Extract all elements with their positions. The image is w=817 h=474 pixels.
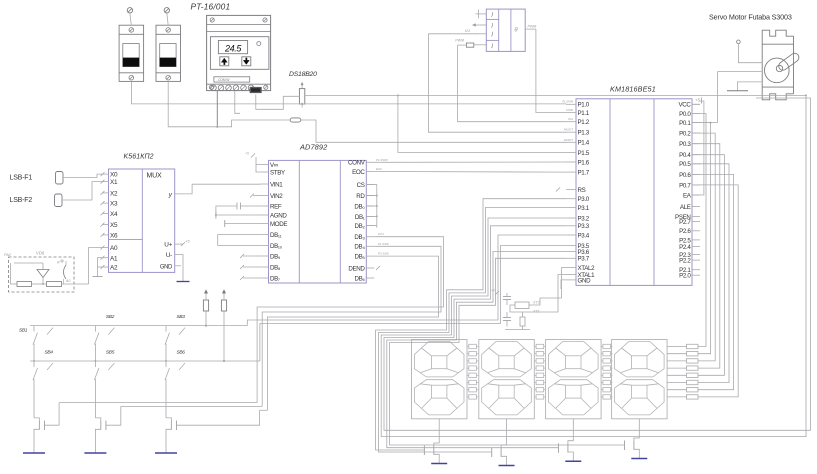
- svg-text:SB2: SB2: [106, 314, 115, 320]
- svg-text:X4: X4: [110, 211, 118, 218]
- svg-text:P0.2: P0.2: [679, 131, 691, 138]
- svg-text:EOC: EOC: [352, 169, 365, 176]
- svg-text:X6: X6: [110, 233, 118, 240]
- svg-text:GND: GND: [160, 264, 173, 270]
- svg-text:+5: +5: [245, 152, 249, 156]
- svg-text:K561КП2: K561КП2: [124, 154, 154, 161]
- svg-text:P1.4: P1.4: [578, 140, 590, 147]
- svg-text:P1.0: P1.0: [578, 102, 590, 109]
- svg-text:P3.3/DK: P3.3/DK: [378, 252, 390, 256]
- svg-text:STBY: STBY: [270, 169, 285, 176]
- svg-text:DB₅: DB₅: [354, 254, 365, 261]
- svg-text:P1.0/WR: P1.0/WR: [562, 100, 573, 104]
- svg-text:P0.3: P0.3: [679, 141, 691, 148]
- svg-text:Servo Motor Futaba S3003: Servo Motor Futaba S3003: [709, 13, 792, 22]
- svg-text:DB₉: DB₉: [270, 253, 281, 260]
- svg-text:P1.2: P1.2: [578, 119, 590, 126]
- svg-text:SB6: SB6: [177, 350, 186, 356]
- svg-text:CONV: CONV: [348, 160, 366, 167]
- svg-text:PA1: PA1: [568, 117, 573, 121]
- svg-text:P0.6: P0.6: [679, 172, 691, 179]
- svg-text:MODE: MODE: [270, 221, 287, 228]
- svg-text:P1.3: P1.3: [578, 130, 590, 137]
- svg-text:P0.7: P0.7: [679, 182, 691, 189]
- svg-text:KM1816BE51: KM1816BE51: [610, 85, 656, 94]
- svg-text:U-: U-: [166, 252, 172, 259]
- svg-text:P0.0: P0.0: [679, 111, 691, 118]
- svg-text:LSB-F1: LSB-F1: [10, 174, 33, 181]
- svg-text:PWM: PWM: [566, 108, 573, 112]
- svg-text:EA: EA: [683, 192, 692, 199]
- svg-text:V∞: V∞: [270, 162, 278, 169]
- svg-text:DEND: DEND: [348, 265, 365, 272]
- svg-text:t23: t23: [465, 29, 470, 33]
- svg-text:P2.6: P2.6: [679, 228, 691, 235]
- svg-text:P3.3: P3.3: [578, 223, 590, 230]
- svg-text:A2: A2: [110, 265, 118, 272]
- svg-text:DB₂: DB₂: [355, 223, 366, 230]
- svg-text:MUX: MUX: [147, 173, 162, 180]
- svg-text:DB₁: DB₁: [355, 214, 365, 221]
- svg-text:P0.4: P0.4: [679, 152, 691, 159]
- svg-text:R: R: [57, 261, 60, 265]
- svg-text:VD8: VD8: [36, 251, 45, 256]
- svg-text:P1.1: P1.1: [578, 110, 590, 117]
- svg-text:X5: X5: [110, 222, 118, 229]
- svg-text:REF: REF: [270, 203, 282, 210]
- svg-text:P2.7: P2.7: [679, 219, 691, 226]
- svg-text:AGND: AGND: [270, 212, 287, 219]
- svg-text:P3.2: P3.2: [378, 232, 384, 236]
- svg-text:P2.4: P2.4: [679, 244, 691, 251]
- svg-text:XT2: XT2: [532, 301, 540, 305]
- svg-text:P3.7: P3.7: [578, 256, 590, 263]
- svg-text:VIN1: VIN1: [270, 181, 283, 188]
- svg-text:SB5: SB5: [106, 350, 115, 356]
- svg-text:U+: U+: [164, 242, 172, 249]
- svg-text:RD: RD: [356, 193, 365, 200]
- svg-text:- COM W: - COM W: [217, 78, 231, 82]
- svg-text:PWM: PWM: [455, 39, 464, 43]
- svg-text:DB₁₁: DB₁₁: [270, 232, 282, 239]
- svg-text:X1: X1: [110, 179, 118, 186]
- svg-text:X0: X0: [110, 172, 118, 179]
- svg-text:DB₇: DB₇: [270, 275, 280, 282]
- svg-text:P3.0: P3.0: [578, 196, 590, 203]
- svg-text:PWM: PWM: [528, 25, 537, 29]
- svg-text:VIN2: VIN2: [270, 193, 283, 200]
- svg-text:EOC: EOC: [376, 167, 383, 171]
- svg-text:+5: +5: [185, 239, 190, 244]
- svg-text:PA2: PA2: [4, 253, 12, 257]
- svg-text:A0: A0: [110, 245, 118, 252]
- svg-text:24.5: 24.5: [224, 43, 242, 53]
- svg-text:P0.5: P0.5: [679, 161, 691, 168]
- svg-text:P1.7: P1.7: [578, 170, 590, 177]
- svg-text:LSB-F2: LSB-F2: [10, 197, 33, 204]
- svg-text:X3: X3: [110, 201, 118, 208]
- svg-text:P3.1: P3.1: [578, 205, 590, 212]
- svg-text:P0.1: P0.1: [679, 120, 691, 127]
- svg-text:PT-16/001: PT-16/001: [191, 2, 231, 12]
- svg-text:DB₆: DB₆: [354, 275, 365, 282]
- svg-text:+5: +5: [695, 98, 700, 103]
- svg-text:AD7892: AD7892: [299, 143, 327, 152]
- svg-text:DB₄: DB₄: [354, 244, 365, 251]
- svg-text:VCC: VCC: [678, 102, 691, 109]
- svg-text:CS: CS: [357, 182, 365, 189]
- svg-text:A0: A0: [65, 279, 70, 283]
- svg-text:DB₁₀: DB₁₀: [270, 243, 283, 250]
- svg-text:A1: A1: [110, 255, 118, 262]
- svg-text:P2.2: P2.2: [679, 258, 691, 265]
- svg-text:DS18B20: DS18B20: [289, 71, 317, 78]
- svg-text:SB1: SB1: [19, 328, 28, 334]
- svg-text:P3.2: P3.2: [578, 215, 590, 222]
- svg-text:PA3/DT: PA3/DT: [564, 138, 574, 142]
- svg-text:PA2/DT: PA2/DT: [564, 128, 574, 132]
- svg-text:RS: RS: [578, 187, 586, 194]
- svg-text:P1.6/WR: P1.6/WR: [376, 158, 388, 162]
- svg-text:GND: GND: [578, 277, 592, 284]
- svg-text:P3.4: P3.4: [578, 232, 590, 239]
- svg-text:DB₃: DB₃: [354, 234, 365, 241]
- svg-text:P2.0: P2.0: [679, 273, 691, 280]
- svg-text:XT1: XT1: [532, 310, 540, 314]
- svg-text:P1.5/DK: P1.5/DK: [378, 242, 390, 246]
- svg-text:P1.5: P1.5: [578, 150, 590, 157]
- svg-text:DB₈: DB₈: [270, 264, 281, 271]
- svg-text:SB4: SB4: [45, 350, 54, 356]
- svg-text:P1.6: P1.6: [578, 159, 590, 166]
- svg-text:DB₀: DB₀: [354, 203, 365, 210]
- svg-text:SB3: SB3: [177, 314, 186, 320]
- svg-text:ALE: ALE: [680, 204, 691, 211]
- svg-text:X2: X2: [110, 191, 118, 198]
